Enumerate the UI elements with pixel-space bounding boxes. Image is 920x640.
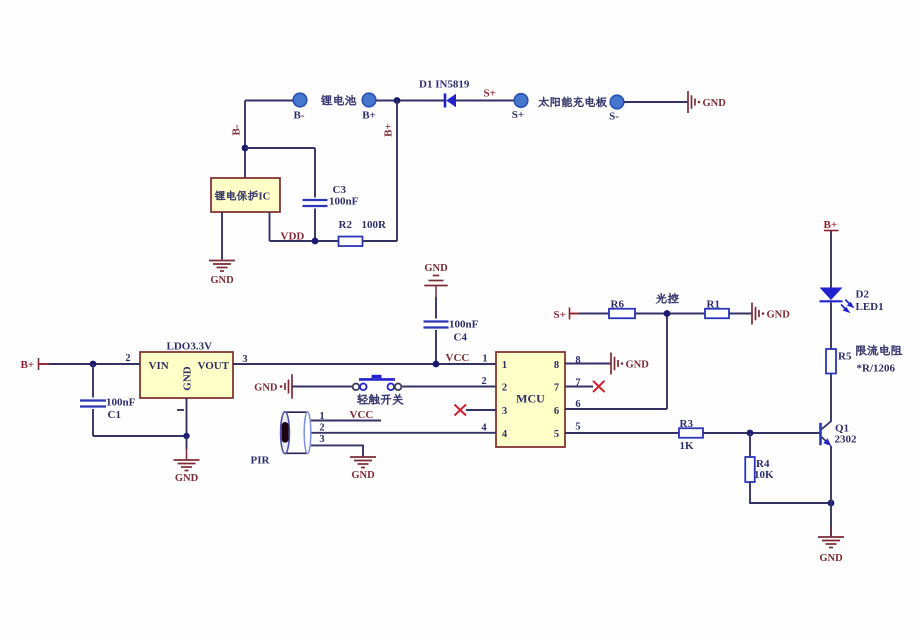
svg-text:B+: B+: [383, 123, 395, 137]
svg-text:VCC: VCC: [350, 409, 374, 421]
svg-text:LDO3.3V: LDO3.3V: [167, 341, 213, 353]
svg-text:3: 3: [319, 434, 324, 445]
svg-text:1: 1: [502, 360, 507, 371]
label 轻触开关 (tactile switch): [357, 394, 403, 405]
wire protection IC ground pin: [221, 212, 223, 260]
svg-text:B+: B+: [824, 219, 838, 231]
svg-text:R6: R6: [611, 299, 625, 311]
svg-text:R2: R2: [339, 219, 353, 231]
svg-text:R5: R5: [838, 351, 852, 363]
wire R3 to base node: [703, 432, 820, 434]
wire MCU pin6 horizontal: [565, 408, 667, 410]
resistor R2: [339, 237, 363, 247]
svg-text:C4: C4: [454, 332, 468, 344]
svg-text:GND: GND: [819, 553, 843, 564]
wire MCU pin3 stub: [466, 409, 496, 411]
wire B+ port to VIN: [49, 363, 140, 365]
regulator U1 LDO3.3V box: [140, 352, 233, 398]
svg-text:GND: GND: [351, 470, 375, 481]
label 光控 (light control): [656, 293, 679, 303]
ground (MCU pin8): [611, 353, 649, 375]
svg-text:IC: IC: [259, 192, 271, 203]
capacitor C1: [80, 401, 106, 407]
wire R6 to node: [635, 313, 705, 315]
svg-text:1: 1: [482, 354, 487, 365]
junction LDO ground node: [183, 433, 189, 439]
switch S1 轻触开关 (tactile): [353, 376, 402, 390]
ground (PIR): [350, 457, 376, 481]
wire S- pad to ground: [624, 101, 688, 103]
wire PIR pin1 (VCC): [311, 420, 381, 422]
wire switch to MCU pin2: [402, 386, 496, 388]
pad B+ (lithium battery positive): [362, 93, 376, 107]
wire VCC rail VOUT to MCU pin1: [233, 363, 496, 365]
ground (switch side): [254, 374, 292, 399]
wire B- pad left: [245, 100, 293, 102]
wire B+ vertical (battery positive feed): [396, 101, 398, 242]
wire ground to C4 (maroon part): [435, 286, 437, 298]
IC U2 锂电保护IC (battery protection IC): [211, 178, 280, 212]
svg-text:R1: R1: [707, 299, 720, 311]
svg-text:MCU: MCU: [516, 392, 545, 406]
svg-text:VIN: VIN: [149, 360, 169, 372]
svg-text:B-: B-: [294, 110, 305, 122]
svg-text:GND: GND: [182, 366, 194, 391]
pad S+ (solar panel positive): [514, 94, 528, 108]
svg-text:10K: 10K: [754, 469, 774, 481]
resistor R6: [609, 309, 635, 319]
junction VCC node at C4: [433, 361, 440, 368]
svg-text:8: 8: [575, 355, 580, 366]
svg-text:5: 5: [554, 429, 559, 440]
resistor R3: [679, 428, 703, 438]
svg-text:2: 2: [502, 383, 507, 394]
wire MCU pin5 to R3: [565, 432, 679, 434]
svg-text:100nF: 100nF: [106, 397, 136, 409]
svg-text:LED1: LED1: [856, 301, 884, 313]
svg-text:VOUT: VOUT: [198, 360, 230, 372]
svg-text:2: 2: [481, 376, 486, 387]
wire MCU pin7 stub: [565, 386, 593, 388]
svg-text:GND: GND: [703, 98, 727, 109]
resistor R4: [745, 457, 755, 482]
ground (top of C4): [424, 263, 448, 286]
wire C1 bottom: [92, 409, 94, 436]
junction emitter node: [828, 500, 835, 507]
svg-text:GND: GND: [767, 309, 791, 320]
svg-text:GND: GND: [254, 382, 278, 393]
svg-text:8: 8: [554, 360, 559, 371]
wire B+ to LED: [830, 231, 832, 288]
svg-text:2302: 2302: [835, 434, 858, 446]
wire C4 to VCC node: [435, 330, 437, 364]
wire MCU pin8 to ground: [565, 363, 611, 365]
svg-text:B+: B+: [21, 359, 35, 371]
pad S- (solar panel negative): [610, 95, 624, 109]
svg-text:4: 4: [481, 423, 487, 434]
resistor R5: [826, 349, 836, 374]
capacitor C4: [424, 322, 449, 328]
junction C1 top: [90, 361, 97, 368]
wire to ground symbol: [186, 436, 188, 449]
svg-text:7: 7: [575, 378, 580, 389]
svg-text:S+: S+: [512, 109, 524, 121]
wire ground to switch: [292, 386, 352, 388]
svg-text:4: 4: [502, 429, 508, 440]
wire C1 to LDO ground node: [93, 435, 187, 437]
wire PIR pin3 to ground: [311, 445, 363, 456]
svg-text:D2: D2: [856, 289, 870, 301]
svg-text:100nF: 100nF: [329, 196, 359, 208]
wire emitter down: [830, 446, 832, 503]
junction B+ node: [394, 97, 401, 104]
svg-text:100nF: 100nF: [449, 319, 479, 331]
svg-text:*R/1206: *R/1206: [857, 363, 896, 375]
wire VDD to R2: [270, 240, 339, 242]
svg-text:GND: GND: [424, 263, 448, 274]
svg-text:GND: GND: [175, 473, 199, 484]
wire LDO GND pin down: [186, 398, 188, 436]
wire junction to diode cathode: [397, 100, 444, 102]
wire R4 bottom to emitter node: [750, 482, 831, 503]
svg-text:7: 7: [554, 383, 559, 394]
svg-text:3: 3: [502, 406, 507, 417]
port S+ tick: [569, 308, 571, 320]
svg-text:GND: GND: [626, 359, 650, 370]
junction light-sense node: [664, 310, 671, 317]
IC U3 MCU box: [496, 352, 565, 447]
port B+ tick: [38, 358, 40, 370]
junction B- node: [242, 145, 249, 152]
svg-text:6: 6: [575, 399, 580, 410]
wire C3 to VDD node: [314, 209, 316, 242]
wire junction to C3 branch: [245, 147, 315, 149]
svg-text:R3: R3: [680, 418, 694, 430]
wire LED to R5: [830, 303, 832, 350]
svg-text:GND: GND: [210, 275, 234, 286]
ground (solar negative): [688, 91, 726, 113]
svg-text:1: 1: [319, 411, 324, 422]
wire B- vertical: [244, 101, 246, 179]
wire protection IC VDD pin down: [269, 212, 271, 241]
wire B+ port lead: [39, 363, 49, 365]
wire R4 top: [749, 433, 751, 457]
svg-text:2: 2: [125, 353, 130, 364]
wire collector up: [830, 374, 832, 422]
svg-text:C1: C1: [108, 409, 121, 421]
label 太阳能充电板 (solar charging panel): [538, 97, 607, 108]
ground (Q1 emitter): [818, 526, 844, 564]
label 锂电保护IC text: [215, 191, 258, 201]
svg-text:2: 2: [319, 423, 324, 434]
svg-text:6: 6: [554, 406, 559, 417]
pad B- (lithium battery negative): [293, 93, 307, 107]
wire R2 to B+ column: [363, 240, 398, 242]
port B+ underline: [824, 230, 839, 232]
svg-text:S+: S+: [484, 88, 496, 100]
wire S+ to R6: [579, 313, 609, 315]
transistor Q1 (2302): [821, 421, 832, 446]
label 限流电阻 (current limiting resistor): [856, 345, 902, 356]
capacitor C3: [303, 200, 328, 206]
wire R1 to ground: [729, 313, 752, 315]
svg-text:D1 IN5819: D1 IN5819: [419, 79, 470, 91]
wire down to capacitor C3: [314, 148, 316, 198]
svg-text:5: 5: [575, 422, 580, 433]
wire diode anode to S+ pad: [456, 100, 515, 102]
svg-text:B+: B+: [362, 110, 376, 122]
junction VDD node: [312, 238, 319, 245]
ground (LDO): [174, 449, 200, 484]
svg-text:100R: 100R: [362, 219, 388, 231]
wire emitter node to ground: [830, 503, 832, 536]
svg-text:1K: 1K: [680, 440, 695, 452]
ground (R1): [752, 303, 790, 325]
ground (protection IC): [209, 261, 235, 287]
no-connect X (MCU pin3): [455, 405, 467, 416]
junction base node: [747, 430, 754, 437]
svg-text:S+: S+: [554, 309, 566, 321]
label 锂电池 (lithium battery): [321, 95, 356, 106]
wire ground to C4: [435, 297, 437, 319]
svg-text:C3: C3: [333, 184, 347, 196]
svg-text:PIR: PIR: [251, 455, 271, 467]
wire PIR pin2 to MCU pin4: [311, 432, 496, 434]
resistor R1: [705, 309, 729, 319]
wire C1 top: [92, 364, 94, 398]
svg-text:S-: S-: [609, 111, 619, 123]
sensor PIR (cylinder body): [281, 412, 311, 454]
wire B+ pad to junction: [376, 100, 397, 102]
wire light-sense vertical: [666, 314, 668, 410]
pin number 1 (LDO gnd, rotated): [177, 409, 184, 411]
svg-text:B-: B-: [231, 124, 243, 135]
svg-text:VCC: VCC: [446, 352, 470, 364]
no-connect X (MCU pin7): [593, 381, 605, 392]
LED D2 (triangle + bar + light arrows): [820, 288, 855, 314]
wire S+ port lead: [570, 313, 579, 315]
diode D1 (IN5819): [445, 94, 456, 108]
